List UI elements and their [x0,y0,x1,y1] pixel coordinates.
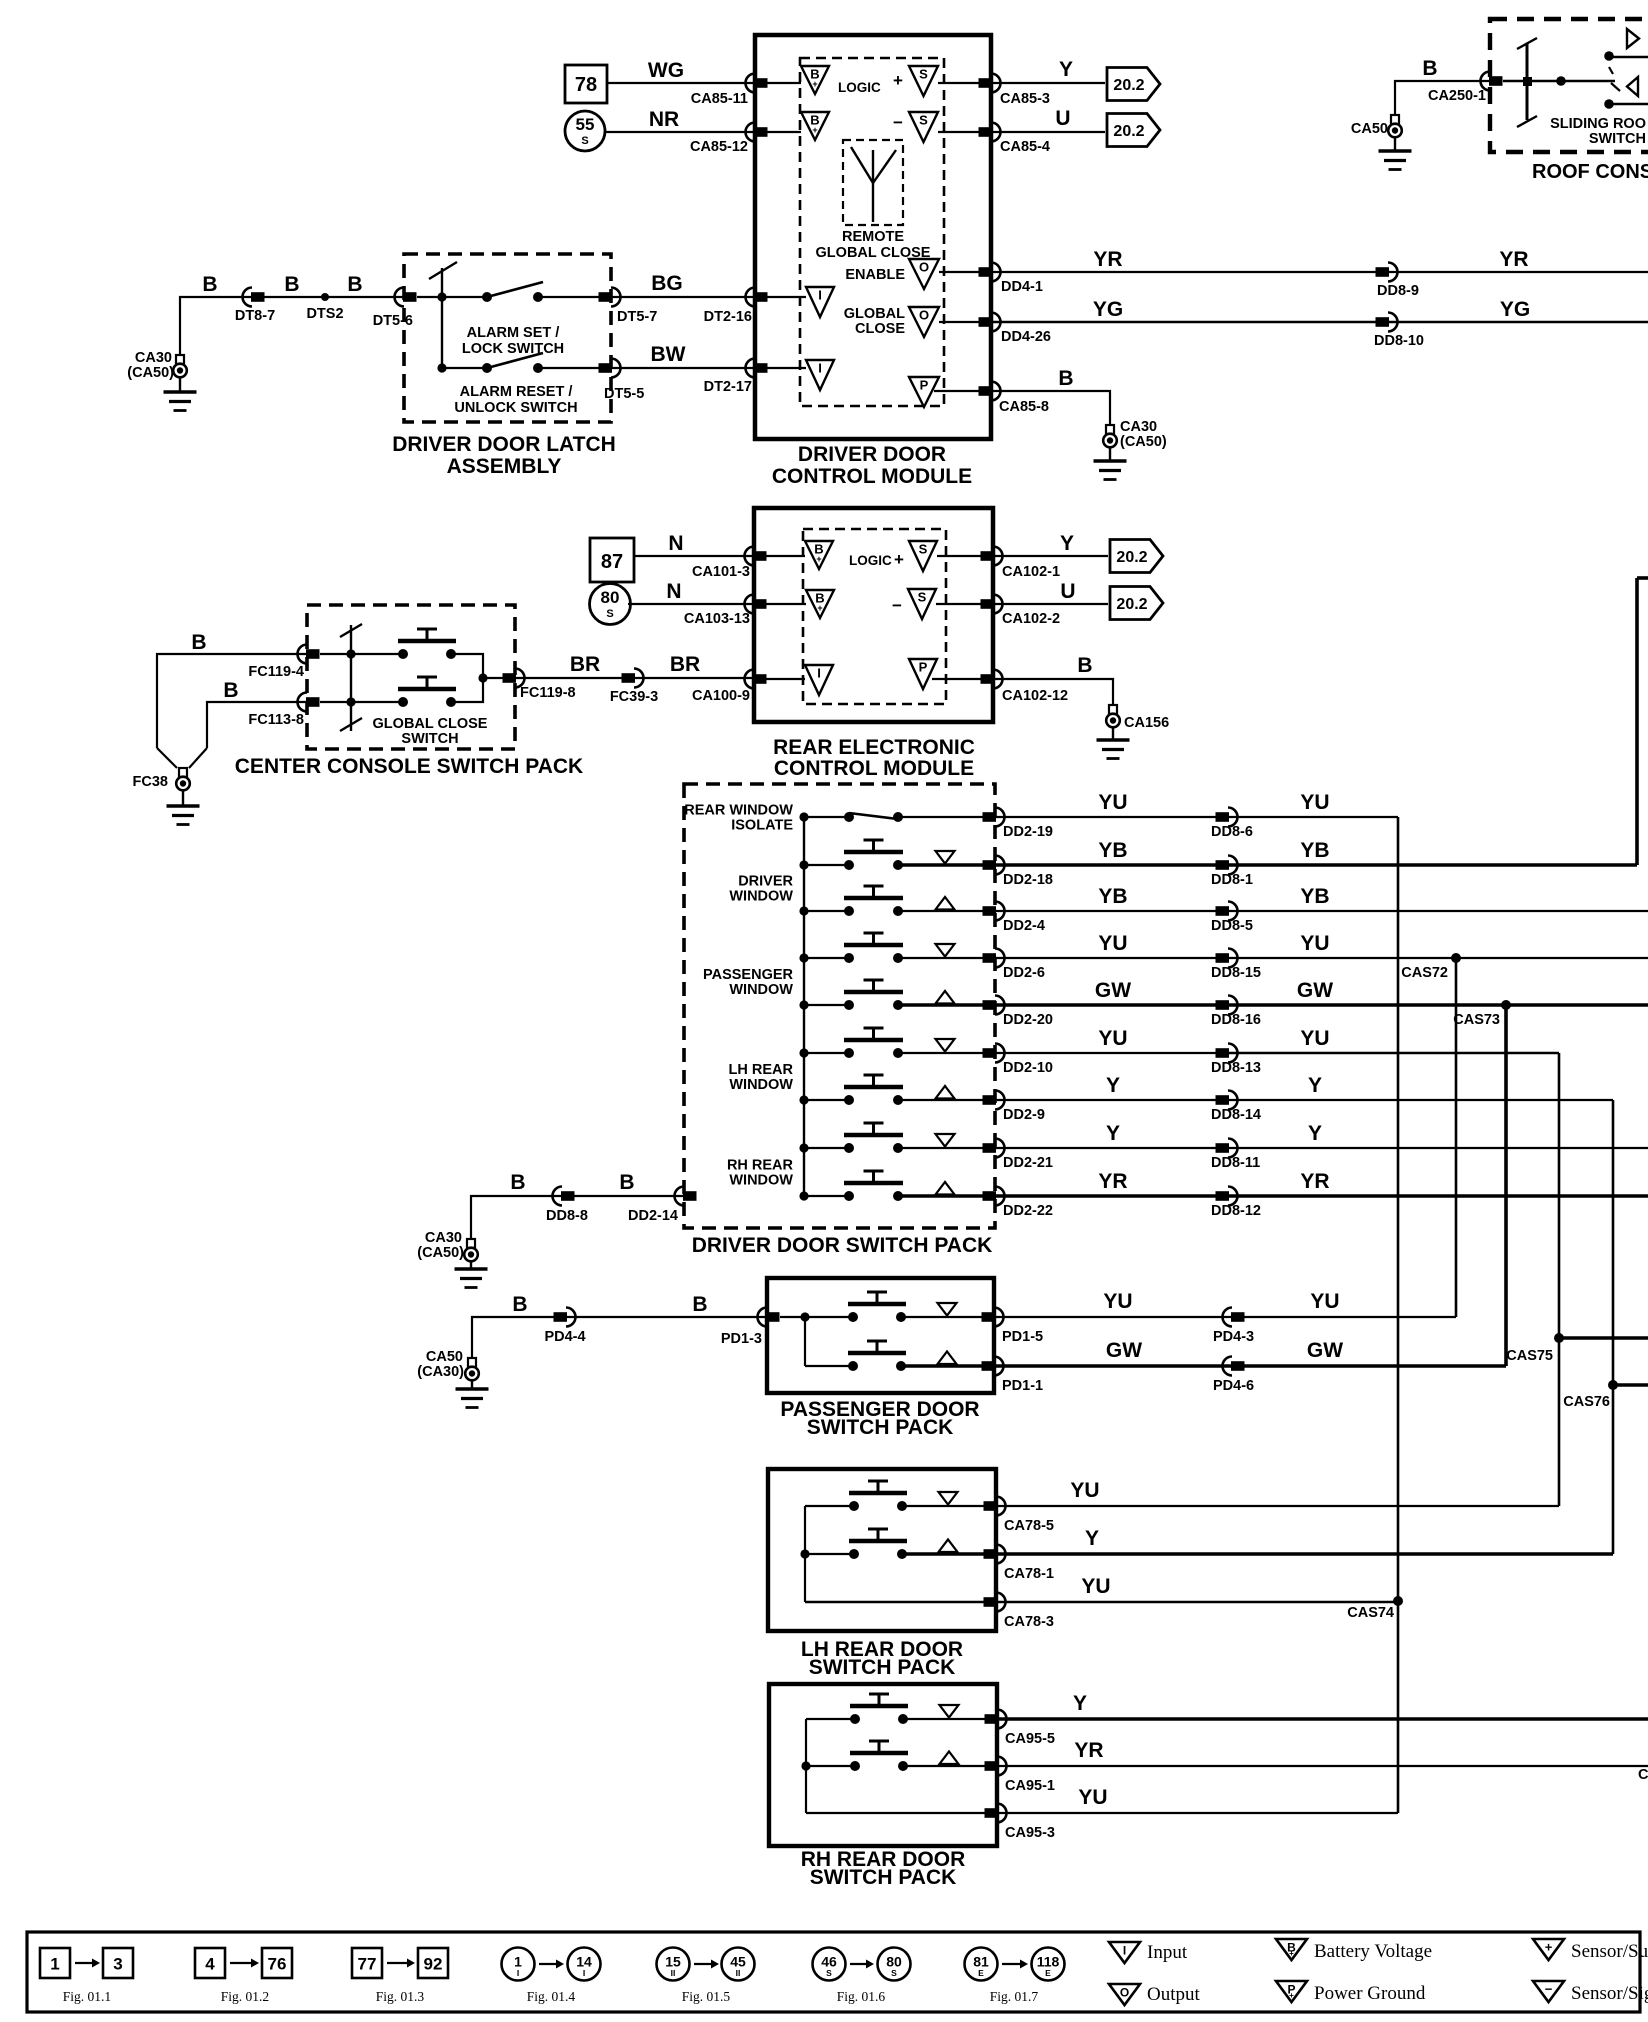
svg-text:CA102-12: CA102-12 [1002,688,1068,704]
svg-text:CA85-12: CA85-12 [690,139,748,155]
svg-text:B: B [223,679,238,702]
svg-text:CAS72: CAS72 [1401,965,1448,981]
svg-text:DD2-21: DD2-21 [1003,1155,1053,1171]
svg-text:DD2-19: DD2-19 [1003,824,1053,840]
svg-text:I: I [818,361,822,376]
svg-text:S: S [826,1968,832,1978]
svg-text:FC38: FC38 [133,774,168,790]
svg-text:REAR ELECTRONIC: REAR ELECTRONIC [773,736,975,759]
svg-text:CENTER CONSOLE SWITCH PACK: CENTER CONSOLE SWITCH PACK [235,755,583,778]
svg-text:FC119-4: FC119-4 [248,664,304,680]
svg-text:Y: Y [1060,532,1074,555]
svg-text:CA85-11: CA85-11 [691,91,748,107]
svg-text:YU: YU [1098,791,1127,814]
svg-text:RH REAR: RH REAR [727,1158,794,1174]
svg-text:CA250-1: CA250-1 [1428,88,1486,104]
svg-text:B: B [510,1171,525,1194]
svg-text:YU: YU [1103,1290,1132,1313]
svg-text:ALARM RESET /: ALARM RESET / [460,384,573,400]
svg-text:YU: YU [1098,932,1127,955]
svg-text:PD4-4: PD4-4 [544,1329,585,1345]
svg-text:C: C [1638,1767,1648,1783]
svg-text:Y: Y [1059,58,1073,81]
svg-text:BR: BR [570,653,600,676]
svg-text:LOGIC: LOGIC [838,80,881,95]
svg-text:PD1-5: PD1-5 [1002,1329,1043,1345]
svg-text:YR: YR [1098,1170,1127,1193]
svg-text:DD8-10: DD8-10 [1374,333,1424,349]
svg-text:CA95-3: CA95-3 [1005,1825,1055,1841]
svg-text:DT8-7: DT8-7 [235,308,275,324]
svg-text:20.2: 20.2 [1116,549,1147,566]
svg-text:YR: YR [1300,1170,1329,1193]
svg-text:Fig. 01.6: Fig. 01.6 [837,1989,886,2004]
svg-text:O: O [1120,1986,1129,2000]
svg-text:DD8-13: DD8-13 [1211,1060,1261,1076]
svg-text:CA102-1: CA102-1 [1002,564,1060,580]
svg-text:(CA30): (CA30) [417,1364,464,1380]
svg-text:O: O [919,308,929,323]
svg-text:CA95-1: CA95-1 [1005,1778,1055,1794]
svg-text:NR: NR [649,108,679,131]
svg-text:Battery Voltage: Battery Voltage [1314,1941,1432,1962]
svg-text:WG: WG [648,59,684,82]
svg-text:LH REAR: LH REAR [729,1062,794,1078]
svg-text:Y: Y [1073,1692,1087,1715]
svg-text:DD2-20: DD2-20 [1003,1012,1053,1028]
svg-text:YB: YB [1300,885,1329,908]
svg-text:P: P [919,660,928,675]
svg-text:CA30: CA30 [425,1230,462,1246]
svg-text:SWITCH: SWITCH [401,731,458,747]
svg-text:Sensor/Signal: Sensor/Signal [1571,1983,1648,2004]
svg-text:REAR WINDOW: REAR WINDOW [684,803,793,819]
svg-text:CA85-3: CA85-3 [1000,91,1050,107]
svg-text:YR: YR [1074,1739,1103,1762]
svg-text:DT5-5: DT5-5 [604,386,644,402]
svg-text:DD8-12: DD8-12 [1211,1203,1261,1219]
svg-text:92: 92 [424,1955,443,1974]
svg-text:II: II [736,1968,741,1978]
svg-text:Y: Y [1106,1074,1120,1097]
svg-text:Input: Input [1147,1942,1188,1963]
svg-text:CA102-2: CA102-2 [1002,611,1060,627]
svg-text:WINDOW: WINDOW [729,1173,793,1189]
svg-text:87: 87 [601,551,623,573]
svg-text:S: S [918,590,927,605]
svg-text:CA103-13: CA103-13 [684,611,750,627]
svg-text:Sensor/Supply: Sensor/Supply [1571,1941,1648,1962]
svg-text:DD8-14: DD8-14 [1211,1107,1261,1123]
svg-text:ROOF CONSO: ROOF CONSO [1532,161,1648,183]
svg-text:CLOSE: CLOSE [855,321,905,337]
svg-text:B: B [1077,654,1092,677]
svg-text:20.2: 20.2 [1116,596,1147,613]
svg-text:YR: YR [1093,248,1122,271]
svg-text:PASSENGER: PASSENGER [703,967,794,983]
svg-text:4: 4 [205,1955,215,1974]
svg-text:YB: YB [1098,839,1127,862]
svg-text:−: − [893,113,903,132]
svg-text:UNLOCK SWITCH: UNLOCK SWITCH [454,400,577,416]
svg-text:B: B [284,273,299,296]
svg-text:+: + [812,125,817,135]
svg-text:(CA50): (CA50) [1120,434,1167,450]
svg-text:ISOLATE: ISOLATE [731,818,793,834]
svg-text:WINDOW: WINDOW [729,982,793,998]
svg-text:DRIVER: DRIVER [738,874,793,890]
svg-text:DD2-10: DD2-10 [1003,1060,1053,1076]
svg-text:YU: YU [1300,932,1329,955]
svg-text:YR: YR [1499,248,1528,271]
svg-text:CA30: CA30 [1120,419,1157,435]
svg-text:+: + [1289,1991,1294,2000]
svg-text:DD8-9: DD8-9 [1377,283,1419,299]
svg-text:P: P [920,378,929,393]
svg-text:B: B [191,631,206,654]
svg-text:FC119-8: FC119-8 [520,685,576,701]
svg-text:DRIVER DOOR SWITCH PACK: DRIVER DOOR SWITCH PACK [692,1234,993,1257]
svg-text:DT5-6: DT5-6 [373,313,413,329]
svg-text:CA156: CA156 [1124,715,1169,731]
svg-text:YU: YU [1078,1786,1107,1809]
svg-text:Fig. 01.3: Fig. 01.3 [376,1989,425,2004]
svg-text:Output: Output [1147,1984,1201,2005]
svg-text:FC113-8: FC113-8 [248,712,304,728]
svg-text:55: 55 [576,115,595,134]
svg-text:CA100-9: CA100-9 [692,688,750,704]
svg-text:U: U [1060,580,1075,603]
svg-text:+: + [816,554,821,564]
svg-text:N: N [668,532,683,555]
svg-text:YU: YU [1070,1479,1099,1502]
svg-text:GW: GW [1307,1339,1343,1362]
svg-text:Y: Y [1308,1074,1322,1097]
svg-text:SWITCH PACK: SWITCH PACK [810,1866,957,1889]
svg-text:DD2-14: DD2-14 [628,1208,678,1224]
svg-text:DT5-7: DT5-7 [617,309,657,325]
svg-text:3: 3 [113,1955,122,1974]
svg-text:DD8-1: DD8-1 [1211,872,1253,888]
svg-text:20.2: 20.2 [1113,123,1144,140]
svg-text:77: 77 [358,1955,377,1974]
svg-text:(CA50): (CA50) [127,365,174,381]
svg-text:CA50: CA50 [426,1349,463,1365]
svg-text:CAS76: CAS76 [1563,1394,1610,1410]
svg-text:DD8-11: DD8-11 [1211,1155,1260,1171]
svg-text:WINDOW: WINDOW [729,1077,793,1093]
svg-text:CA78-3: CA78-3 [1004,1614,1054,1630]
svg-text:+: + [1545,1940,1553,1955]
svg-text:Fig. 01.2: Fig. 01.2 [221,1989,269,2004]
svg-text:GW: GW [1297,979,1333,1002]
svg-text:BW: BW [651,343,686,366]
svg-text:DRIVER DOOR: DRIVER DOOR [798,443,946,466]
svg-text:S: S [919,542,928,557]
svg-text:SLIDING ROO: SLIDING ROO [1550,116,1646,132]
svg-text:DT2-17: DT2-17 [704,379,752,395]
svg-text:CA78-1: CA78-1 [1004,1566,1054,1582]
svg-text:+: + [817,603,822,613]
svg-text:DD2-18: DD2-18 [1003,872,1053,888]
svg-text:DD4-1: DD4-1 [1001,279,1043,295]
svg-text:E: E [1045,1968,1051,1978]
svg-text:80: 80 [601,588,620,607]
svg-text:I: I [1123,1944,1126,1958]
svg-text:BR: BR [670,653,700,676]
svg-text:GLOBAL: GLOBAL [844,306,905,322]
svg-text:CA101-3: CA101-3 [692,564,750,580]
svg-text:DD8-8: DD8-8 [546,1208,588,1224]
svg-text:Fig. 01.4: Fig. 01.4 [527,1989,576,2004]
svg-text:ASSEMBLY: ASSEMBLY [447,455,562,478]
svg-text:Y: Y [1085,1527,1099,1550]
svg-text:DD8-16: DD8-16 [1211,1012,1261,1028]
svg-text:Power Ground: Power Ground [1314,1983,1426,2004]
svg-text:ENABLE: ENABLE [845,267,905,283]
svg-text:CA85-4: CA85-4 [1000,139,1050,155]
svg-text:YU: YU [1310,1290,1339,1313]
svg-text:S: S [581,135,588,147]
svg-text:B: B [619,1171,634,1194]
svg-text:YU: YU [1300,1027,1329,1050]
svg-text:YU: YU [1098,1027,1127,1050]
svg-text:B: B [692,1293,707,1316]
svg-text:DD2-4: DD2-4 [1003,918,1045,934]
svg-text:+: + [812,79,817,89]
svg-text:+: + [894,550,904,569]
svg-text:CAS75: CAS75 [1506,1348,1553,1364]
svg-text:PD4-6: PD4-6 [1213,1378,1254,1394]
svg-text:CONTROL MODULE: CONTROL MODULE [772,465,972,488]
svg-text:DD2-22: DD2-22 [1003,1203,1053,1219]
svg-text:DD2-6: DD2-6 [1003,965,1045,981]
svg-text:CA95-5: CA95-5 [1005,1731,1055,1747]
svg-text:DD4-26: DD4-26 [1001,329,1051,345]
svg-text:(CA50): (CA50) [417,1245,464,1261]
svg-text:II: II [671,1968,676,1978]
svg-text:LOGIC: LOGIC [849,553,892,568]
svg-text:−: − [892,596,902,615]
svg-text:SWITCH PACK: SWITCH PACK [807,1416,954,1439]
svg-text:FC39-3: FC39-3 [610,689,658,705]
svg-text:E: E [978,1968,984,1978]
svg-text:78: 78 [575,74,597,96]
svg-text:Fig. 01.5: Fig. 01.5 [682,1989,731,2004]
svg-text:PD1-1: PD1-1 [1002,1378,1043,1394]
svg-text:DD8-15: DD8-15 [1211,965,1261,981]
svg-text:GW: GW [1095,979,1131,1002]
svg-text:I: I [583,1968,585,1978]
svg-text:N: N [666,580,681,603]
svg-text:PD1-3: PD1-3 [721,1331,762,1347]
svg-text:GLOBAL CLOSE: GLOBAL CLOSE [373,716,488,732]
svg-text:YU: YU [1081,1575,1110,1598]
svg-text:SWITCH: SWITCH [1589,131,1646,147]
svg-text:WINDOW: WINDOW [729,889,793,905]
svg-text:BG: BG [651,272,683,295]
svg-text:Fig. 01.1: Fig. 01.1 [63,1989,111,2004]
svg-text:DT2-16: DT2-16 [704,309,752,325]
svg-text:S: S [919,67,928,82]
svg-text:GW: GW [1106,1339,1142,1362]
svg-text:O: O [919,260,929,275]
svg-text:S: S [919,113,928,128]
svg-text:S: S [606,608,613,620]
svg-text:YG: YG [1093,298,1123,321]
svg-text:+: + [893,71,903,90]
svg-text:CONTROL MODULE: CONTROL MODULE [774,757,974,780]
svg-text:PD4-3: PD4-3 [1213,1329,1254,1345]
svg-text:B: B [202,273,217,296]
svg-text:+: + [1289,1949,1294,1958]
svg-text:Fig. 01.7: Fig. 01.7 [990,1989,1039,2004]
svg-text:B: B [347,273,362,296]
svg-text:−: − [1545,1982,1553,1997]
svg-text:CAS74: CAS74 [1347,1605,1394,1621]
svg-text:CA30: CA30 [135,350,172,366]
svg-text:I: I [817,666,821,681]
svg-text:76: 76 [268,1955,287,1974]
svg-text:DD8-5: DD8-5 [1211,918,1253,934]
svg-text:YG: YG [1500,298,1530,321]
svg-text:I: I [517,1968,519,1978]
svg-text:YB: YB [1098,885,1127,908]
svg-text:U: U [1055,107,1070,130]
svg-text:SWITCH PACK: SWITCH PACK [809,1656,956,1679]
svg-text:CA85-8: CA85-8 [999,399,1049,415]
svg-text:B: B [1058,367,1073,390]
svg-text:B: B [512,1293,527,1316]
svg-text:S: S [891,1968,897,1978]
svg-text:REMOTE: REMOTE [842,229,904,245]
svg-text:DD8-6: DD8-6 [1211,824,1253,840]
svg-text:CA78-5: CA78-5 [1004,1518,1054,1534]
svg-text:CA50: CA50 [1351,121,1388,137]
svg-text:1: 1 [50,1955,59,1974]
svg-text:ALARM SET /: ALARM SET / [467,325,560,341]
svg-text:CAS73: CAS73 [1453,1012,1500,1028]
svg-text:LOCK SWITCH: LOCK SWITCH [462,341,564,357]
svg-text:20.2: 20.2 [1113,77,1144,94]
svg-text:I: I [818,288,822,303]
svg-text:B: B [1422,57,1437,80]
svg-text:YB: YB [1300,839,1329,862]
svg-text:Y: Y [1308,1122,1322,1145]
svg-text:DD2-9: DD2-9 [1003,1107,1045,1123]
svg-text:DTS2: DTS2 [306,306,343,322]
svg-text:DRIVER DOOR LATCH: DRIVER DOOR LATCH [392,433,616,456]
svg-text:YU: YU [1300,791,1329,814]
svg-text:Y: Y [1106,1122,1120,1145]
